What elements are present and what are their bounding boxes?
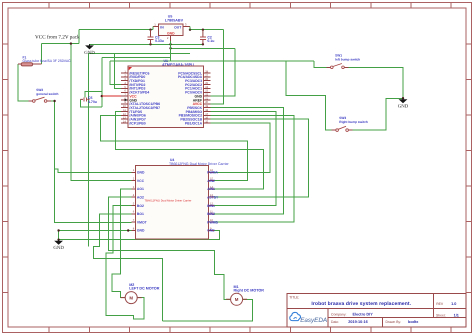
svg-text:bodtx: bodtx [408,320,419,324]
svg-text:15: 15 [205,120,208,123]
voltage regulator U5 L7805ABV [153,15,190,62]
microcontroller U1 ATMEGA8A-16PU [102,59,211,128]
svg-text:1.0: 1.0 [451,302,456,306]
svg-text:Sheet:: Sheet: [436,314,446,318]
wire SW3 feed [286,61,336,130]
svg-text:1/1: 1/1 [454,314,459,318]
ground GND1 [86,44,92,48]
svg-text:23: 23 [205,90,208,93]
svg-text:AIN1: AIN1 [207,187,215,191]
wire 5V OUT column to AVCC [210,30,223,104]
fuse F1 [18,63,42,66]
svg-text:26: 26 [205,78,208,81]
svg-text:Company:: Company: [331,313,347,317]
motor M1 [226,293,247,305]
wire U4 AO2 to M1 left [109,197,231,299]
svg-text:L7805ABV: L7805ABV [165,19,184,23]
wire U4 pin2 VCC up to battery line [71,44,131,181]
svg-text:BO2: BO2 [137,204,144,208]
svg-text:EasyEDA: EasyEDA [300,317,327,324]
svg-text:25: 25 [205,82,208,85]
wire rail y=61 to bump switches [110,61,330,67]
wire U4 pin1 GND loop up to SW2 wire [55,169,132,172]
svg-text:AO1: AO1 [137,187,144,191]
svg-text:22: 22 [205,94,208,97]
svg-text:0.1u: 0.1u [207,39,214,43]
svg-text:13: 13 [123,117,126,120]
node junction dots [53,29,404,241]
wire C5 bottom loop [80,99,102,107]
svg-text:VMOT: VMOT [137,220,148,224]
wire VCC red to pin7 [102,95,121,97]
svg-text:GND: GND [53,245,64,251]
wire rail y=57.5 to regulator gnd pin [102,57,171,59]
wire U4 AO1 to M2 left [112,189,131,298]
svg-text:Irobot braava drive system rep: Irobot braava drive system replacement. [311,301,411,307]
svg-text:Electro DIY: Electro DIY [353,313,374,317]
svg-text:0.33u: 0.33u [155,39,164,43]
wire U4 BO1 to bottom bus [94,214,163,321]
wire rail y=53.3 [89,52,190,54]
svg-text:BIN1: BIN1 [207,204,215,208]
title block [287,294,466,328]
switch SW3 [332,129,353,131]
svg-text:Date:: Date: [331,320,339,324]
wire MCU pin5 to rail53.3 [115,53,122,88]
capacitor C5 [80,97,89,101]
capacitor C2 [200,30,206,45]
svg-text:M: M [129,295,133,300]
wire GND1 symbol link rail y=44.3 [90,44,203,46]
svg-text:21: 21 [205,97,208,100]
svg-text:GND: GND [167,31,175,35]
wire fuse left to SW2 [18,64,33,101]
wire U4 BO2 to M2 right loop [106,206,144,319]
wire MCU pin17 MOSI to PWMB [210,115,294,222]
svg-text:BIN2: BIN2 [207,212,215,216]
svg-text:Drawn By:: Drawn By: [386,320,402,324]
wire SW1 to GND2 [345,67,404,98]
wire MCU pin15 OC1A to PWMA [210,123,270,172]
svg-text:GND: GND [84,50,95,56]
svg-text:GND: GND [137,229,145,233]
svg-text:LEFT DC MOTOR: LEFT DC MOTOR [129,287,160,291]
svg-text:OUT: OUT [174,25,182,29]
svg-text:16: 16 [205,117,208,120]
svg-text:/ICP1/PB0: /ICP1/PB0 [129,121,145,125]
svg-text:17: 17 [205,113,208,116]
svg-text:IN: IN [160,25,164,29]
svg-text:PWMA: PWMA [207,171,218,175]
svg-text:GND: GND [137,171,145,175]
svg-text:AO2: AO2 [137,196,144,200]
svg-text:general switch: general switch [36,92,58,96]
svg-text:Glass tube fuse/5A 3F 250VAC: Glass tube fuse/5A 3F 250VAC [23,59,72,63]
svg-text:GND: GND [207,229,215,233]
svg-text:12: 12 [123,113,126,116]
svg-text:TB6612FNG Dual Motor Driver Ca: TB6612FNG Dual Motor Driver Carrier [145,200,192,203]
wire left long column x=88.6 [88,53,90,246]
wire U4 pin9 GND loop [59,230,220,239]
motor M2 [121,292,142,304]
switch SW1 [326,66,348,68]
wire C5 top loop and VCC node [85,58,102,107]
svg-text:20: 20 [205,101,208,104]
wire bottom bus to M1 right [162,299,252,321]
wire VIN rail y=29.7 [79,29,223,31]
svg-text:27: 27 [205,74,208,77]
svg-text:VCC from 7.2V pack: VCC from 7.2V pack [35,34,80,40]
svg-text:PWMB: PWMB [207,220,218,224]
svg-text:left bump switch: left bump switch [335,57,360,61]
svg-text:nSTBY: nSTBY [207,196,219,200]
wire U4 pin8 GND to GND3 [59,231,132,241]
capacitor C3 [148,30,154,45]
wire SW3 to GND2 junction [349,99,404,131]
wire MCU pin16 SS to nSTBY [210,119,308,197]
svg-text:28: 28 [205,70,208,73]
wire SW2 out junction down to VMOT rail [47,101,131,222]
motor driver IC U4 TB6612FNG [131,158,229,239]
wire VCC flag drop to fuse [42,30,79,64]
wire MCU pin19 SCK to BIN2 [210,108,283,214]
svg-text:18: 18 [205,109,208,112]
svg-text:REV: REV [436,302,444,306]
svg-text:11: 11 [123,109,126,112]
EasyEDA logo [290,312,327,323]
svg-text:24: 24 [205,86,208,89]
svg-text:BO1: BO1 [137,212,144,216]
svg-text:M: M [235,297,239,302]
svg-text:PB1/OC1A: PB1/OC1A [185,121,203,125]
svg-text:19: 19 [205,105,208,108]
svg-text:GND: GND [398,104,409,110]
ground GND2 [400,98,406,102]
svg-text:2019-10-16: 2019-10-16 [348,320,367,324]
svg-text:TITLE:: TITLE: [289,296,299,300]
wire GND rail y=48.3 to pin22 column [171,48,236,96]
svg-text:4.70u: 4.70u [88,100,97,104]
svg-text:Right DC MOTOR: Right DC MOTOR [234,289,265,293]
svg-text:Right bump switch: Right bump switch [339,120,368,124]
svg-text:VCC: VCC [137,179,145,183]
wire MCU pin12 to AIN2 [100,115,247,180]
wire MCU pin18 MISO to BIN1 [210,112,275,206]
wire MCU pin11 to AIN1 [116,112,264,189]
ground GND3 [56,240,62,244]
svg-text:AIN2: AIN2 [207,179,215,183]
wire fuse terminals [33,63,42,65]
switch SW2 [28,100,51,102]
svg-text:10: 10 [123,105,126,108]
wire MCU pin4 to rail61 [110,61,121,85]
svg-text:14: 14 [123,120,126,123]
